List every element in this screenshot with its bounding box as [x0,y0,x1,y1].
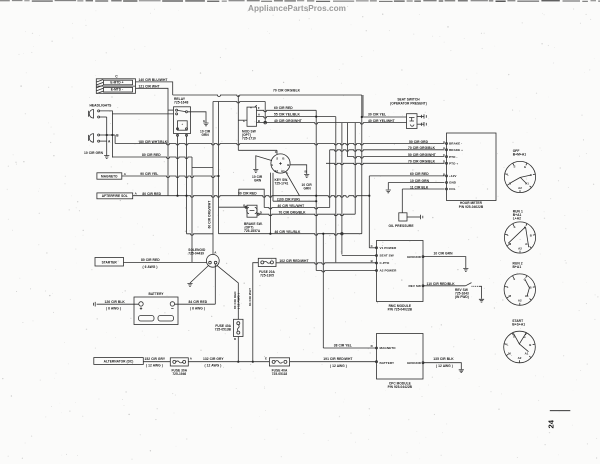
svg-text:C: C [371,244,374,248]
ground key left [253,170,258,173]
svg-text:(IN FWD): (IN FWD) [455,295,469,299]
afterfire solenoid box [97,193,133,199]
junction charge node2 [252,361,254,363]
wire 70 riser [354,123,356,215]
wire pto- riser [346,123,348,157]
page footer rule [550,410,571,412]
wire a2 stub [316,271,376,273]
junction magneto node [217,175,219,177]
connector E-MTD block [96,79,135,94]
junction stair node [315,116,317,118]
wire modsw C stub [238,119,247,121]
svg-text:30 CIR YEL: 30 CIR YEL [368,112,386,116]
wire 60 to12v [369,175,444,177]
svg-text:60 CIR ORG/WHT: 60 CIR ORG/WHT [208,201,212,229]
wire key C link [238,149,277,151]
wire seat riser [341,123,343,255]
fuse 40A 725-0513B [234,319,244,336]
svg-text:GRN: GRN [304,186,312,190]
wire alt wire1 [143,361,170,363]
svg-text:P/N 725-04022B: P/N 725-04022B [388,308,413,312]
svg-text:38 CIR YEL: 38 CIR YEL [334,343,352,347]
wire batt pos [175,303,216,305]
svg-text:AFTERFIRE SOL: AFTERFIRE SOL [102,194,128,198]
svg-text:( 12 AWG ): ( 12 AWG ) [436,364,453,368]
wire lamp2 low [100,140,107,142]
svg-text:B: B [530,234,532,238]
wire key C riser [237,95,239,150]
wire oil drop [401,189,403,213]
wire 10 grn [388,182,444,184]
svg-text:60 CIR RED: 60 CIR RED [274,106,293,110]
svg-text:90 CIR YEL: 90 CIR YEL [140,172,158,176]
wire lamp2 top [100,134,116,136]
svg-text:A2: A2 [518,356,522,360]
svg-text:+: + [181,122,183,126]
wire key C stub [276,150,278,154]
module CPC P/N 925-04422B [377,334,424,380]
svg-text:S: S [276,157,278,161]
svg-text:E: E [203,119,205,123]
module RMC P/N 725-04022B [377,241,424,302]
wire seat t2 [417,123,424,125]
svg-text:L: L [507,233,509,237]
svg-text:A2 POWER: A2 POWER [380,269,398,273]
wire A2 riser [315,110,317,270]
svg-text:A: A [124,172,127,176]
switch key 725-1741 [271,154,290,173]
svg-text:D: D [443,160,445,164]
svg-text:725-1657A: 725-1657A [244,229,261,233]
wire rev blade [466,283,472,286]
wire 46 yelblk [219,234,362,236]
wire grn drop [387,183,389,190]
wire relay feed [112,113,173,115]
svg-text:GRN: GRN [254,178,262,182]
svg-text:725-04439: 725-04439 [188,251,204,255]
svg-text:( 6 AWG ): ( 6 AWG ) [190,306,205,310]
svg-text:MAGNETO: MAGNETO [380,346,397,350]
junction lamp bus [106,134,108,136]
svg-text:P/N 925-04422B: P/N 925-04422B [388,385,413,389]
junction charge node1 [237,361,239,363]
svg-text:L: L [507,285,509,289]
svg-text:OIL PRESSURE: OIL PRESSURE [389,224,415,228]
page top edge scan line [0,0,10,2]
wire sol batt [214,264,216,304]
svg-text:A: A [190,357,193,361]
svg-text:GRN: GRN [202,133,210,137]
svg-text:D: D [234,337,237,341]
wire starter cable [124,261,207,263]
junction lamp bus2 [111,134,113,136]
wire 70 pto [326,163,445,165]
wire brake B wire [219,206,248,208]
svg-text:24: 24 [547,419,556,428]
fuse 20A 725-1305 [258,258,276,266]
junction a1 tap [269,233,271,235]
svg-text:55 CIR YEL/BLK: 55 CIR YEL/BLK [274,113,300,117]
ground relay [203,123,208,126]
wire relay blade [178,110,186,111]
wire 70 lower [258,214,355,216]
svg-text:GROUND: GROUND [407,255,422,259]
wire 50 orgwht [347,157,444,159]
wire node B drop [114,135,116,144]
svg-text:D: D [371,344,373,348]
svg-text:PTO -: PTO - [449,155,457,159]
wire fuse40 drop [237,337,239,362]
svg-text:A2: A2 [518,247,522,251]
svg-text:C-PTO: C-PTO [380,261,390,265]
wire cpc magneto riser [322,234,324,348]
alternator (DC) box [94,358,144,365]
wire relay coil a [177,135,179,195]
svg-text:F: F [258,106,260,110]
svg-text:B: B [116,134,119,138]
svg-text:( 6 AWG ): ( 6 AWG ) [106,306,121,310]
svg-text:A2: A2 [274,169,278,173]
scan noise speckle [271,259,272,260]
relay lower terminals [177,134,179,136]
svg-text:MAGNETO: MAGNETO [101,174,118,178]
wire cpto riser [335,117,337,263]
svg-text:A: A [214,250,217,254]
wire alt wire2 [188,361,269,363]
wire rev wire [423,285,466,287]
svg-text:A2: A2 [518,299,522,303]
svg-text:B: B [282,157,284,161]
junction a2 bus node [315,195,317,197]
wire seat stub [342,255,377,257]
svg-text:+12V: +12V [449,174,457,178]
diagram key position OFF [504,149,535,192]
svg-text:AppliancePartsPros.com: AppliancePartsPros.com [248,4,346,13]
wire lamp1 top to vertical [100,111,113,158]
wire 50 CIR GRD [115,144,444,146]
ground hour meter [386,190,391,193]
starter box [95,258,124,267]
wire 30 CIR YEL [362,116,407,118]
svg-text:B+M+A1: B+M+A1 [513,153,527,157]
wire 121 CIR WHT run [136,88,169,195]
svg-text:L: L [507,343,509,347]
wire v1 stub [369,247,376,249]
svg-text:132 CIR GRY: 132 CIR GRY [203,357,224,361]
svg-text:A1: A1 [281,169,285,173]
fuse 30A 725-1946 [170,358,188,366]
svg-text:PTO +: PTO + [449,162,458,166]
wire solenoid trigger [186,196,188,234]
lamp headlight 1 [89,110,93,119]
svg-text:( 6 AWG ): ( 6 AWG ) [143,265,158,269]
svg-text:B: B [529,343,531,347]
lamp headlight 2 [89,134,93,143]
svg-text:B: B [530,286,532,290]
svg-text:725-1741: 725-1741 [275,182,289,186]
junction relay coil node2 [176,195,178,197]
svg-text:E: E [265,357,267,361]
wire key L diag [286,172,300,196]
svg-text:COL: COL [449,187,456,191]
wire 60 CIR RED [257,110,317,112]
wire modsw tick [255,105,257,107]
junction hm12 node [368,195,370,197]
wire cpc gnd [423,363,461,370]
svg-text:10 CIR GRN: 10 CIR GRN [84,151,104,155]
svg-text:80 CIR RED: 80 CIR RED [142,153,161,157]
wire 90 CIR YEL [122,176,219,178]
wire solenoid feed [212,102,214,255]
magneto box [97,173,122,179]
svg-text:140 CIR BLU/WHT: 140 CIR BLU/WHT [139,78,168,82]
wire key A1 drop [269,173,271,234]
wire 90 red loop [239,189,264,207]
svg-text:84 CIR RED: 84 CIR RED [189,300,208,304]
fuse 40A 725-05118 [269,358,289,366]
wire 40 lower [264,208,330,210]
junction seat node [361,116,363,118]
diagram key position RUN 1 [504,210,535,253]
svg-text:BRAKE +: BRAKE + [449,148,463,152]
svg-text:( 12 AWG ): ( 12 AWG ) [205,363,222,367]
wire key A2 drop [272,173,274,201]
svg-text:725-1946: 725-1946 [172,372,186,376]
wire 38 yel [323,347,376,349]
svg-text:121 CIR WHT: 121 CIR WHT [139,84,160,88]
wire pto riser [361,95,363,234]
svg-text:(OPERATOR PRESENT): (OPERATOR PRESENT) [390,101,427,105]
wire batt neg [97,303,139,305]
svg-text:L: L [507,173,509,177]
wire key G [256,156,272,169]
wire afterfire bus [133,196,370,198]
ground solenoid [187,284,192,287]
wire relay coil b [186,135,188,195]
wire key B [290,165,307,174]
wire alt wire3 [290,361,377,363]
svg-text:STARTER: STARTER [102,260,118,264]
svg-text:BATTERY: BATTERY [148,292,164,296]
wire modsw drop [264,102,266,123]
junction cpc tap [322,233,324,235]
svg-text:A1: A1 [525,352,529,356]
svg-text:A: A [108,140,111,144]
svg-text:B: B [287,163,289,167]
switch MOD SW 725-1710 [247,107,257,126]
svg-text:725-1710: 725-1710 [242,137,256,141]
svg-text:A: A [258,113,261,117]
wire sol gnd diag [190,266,209,284]
junction pur node [315,200,317,202]
wire starter tap [191,157,193,262]
svg-text:725-0513B: 725-0513B [215,328,232,332]
svg-text:B+S+A1: B+S+A1 [512,322,525,326]
svg-text:A2: A2 [518,186,522,190]
svg-text:L+A2: L+A2 [513,217,521,221]
svg-text:725-05118: 725-05118 [272,372,288,376]
svg-text:B+A1: B+A1 [513,265,522,269]
svg-text:SEAT SW: SEAT SW [380,254,394,258]
wire seat t1 [417,115,424,117]
svg-text:M: M [509,294,512,298]
wire seat drop [362,95,364,116]
svg-text:135 CIR BLK: 135 CIR BLK [433,357,454,361]
svg-text:70 CIR ORG/BLK: 70 CIR ORG/BLK [408,160,436,164]
ground cpc [459,370,464,373]
wire 55 CIR YEL/BLK [257,117,336,119]
svg-text:B: B [305,170,307,174]
svg-text:G: G [524,165,527,169]
wire 140 CIR BLU/WHT run [136,82,173,95]
meter HOUR METER P/N 925-04022B [447,133,497,201]
svg-text:( 12 AWG ): ( 12 AWG ) [146,363,163,367]
svg-text:84 CIR WHT: 84 CIR WHT [248,288,252,306]
wire org riser [329,150,331,208]
wire rmc gnd [423,257,466,268]
svg-text:80 CIR RED: 80 CIR RED [141,258,160,262]
connector pin on 46 wire [341,233,343,235]
svg-text:90 CIR RED: 90 CIR RED [238,192,257,196]
wire sol fuse diag [217,265,239,319]
diagram key position RUN 2 [504,262,535,306]
diagram key position START [504,319,536,363]
wire 80 red jog [192,167,213,169]
wire relay stub [168,109,174,111]
svg-text:( 12 AWG ): ( 12 AWG ) [237,293,241,309]
wire 40 CIR ORG/WHT [257,123,407,125]
svg-text:E-MTD -: E-MTD - [111,88,123,92]
svg-text:126 CIR BLK: 126 CIR BLK [105,300,126,304]
wire hm12 riser [368,176,370,248]
wire headlight gnd drop [106,117,108,155]
wire 70 hm [330,150,445,152]
wire brake feed [218,102,220,234]
ground rev sw [479,299,484,302]
svg-text:BATTERY: BATTERY [380,361,396,365]
svg-text:A: A [135,192,138,196]
wire oil stub [407,216,421,218]
wire branch bus [213,102,265,104]
svg-text:GROUND: GROUND [407,361,422,365]
wire solenoid link [187,234,214,236]
ground key right [304,175,309,178]
svg-text:M: M [508,352,511,356]
svg-text:725-1305: 725-1305 [260,274,274,278]
wire relay NO to gnd [188,112,206,123]
svg-text:REV SW: REV SW [408,284,421,288]
svg-text:B: B [443,172,445,176]
svg-text:HEADLIGHTS: HEADLIGHTS [90,103,113,107]
wire rev to gnd [480,286,482,299]
svg-text:725-1648: 725-1648 [174,101,188,105]
ground rmc [463,269,468,272]
junction relay coil node [185,195,187,197]
svg-text:70 CIR ORG/BLK: 70 CIR ORG/BLK [273,89,301,93]
svg-text:V1 POWER: V1 POWER [380,246,397,250]
wire 70 CIR ORG/BLK top [173,95,362,97]
wire 11 blk [402,188,444,190]
svg-text:E-MTD +: E-MTD + [110,80,123,84]
svg-text:191 CIR RED/WHT: 191 CIR RED/WHT [323,357,352,361]
svg-text:( 12 AWG ): ( 12 AWG ) [330,364,347,368]
svg-text:BRAKE -: BRAKE - [449,142,462,146]
svg-text:GND: GND [449,181,457,185]
wire 102 redwht [276,263,377,265]
svg-text:G: G [271,163,274,167]
wire lamp1 low [100,116,107,118]
wire fuse feed [253,263,258,362]
ground headlights [104,156,109,159]
svg-text:10 CIR GRN: 10 CIR GRN [434,251,454,255]
svg-text:A1: A1 [525,294,529,298]
switch oil pressure [399,213,407,221]
svg-text:P/N 925-04022B: P/N 925-04022B [459,205,484,209]
svg-text:80 CIR RED: 80 CIR RED [142,192,161,196]
svg-text:A1: A1 [525,182,529,186]
svg-text:152 CIR GRY: 152 CIR GRY [145,357,166,361]
svg-text:ALTERNATOR (DC): ALTERNATOR (DC) [104,359,134,363]
svg-text:C: C [115,74,118,78]
svg-text:D: D [260,210,263,214]
wire 100 pur [273,200,316,202]
wire 80 CIR RED bus [112,157,192,159]
